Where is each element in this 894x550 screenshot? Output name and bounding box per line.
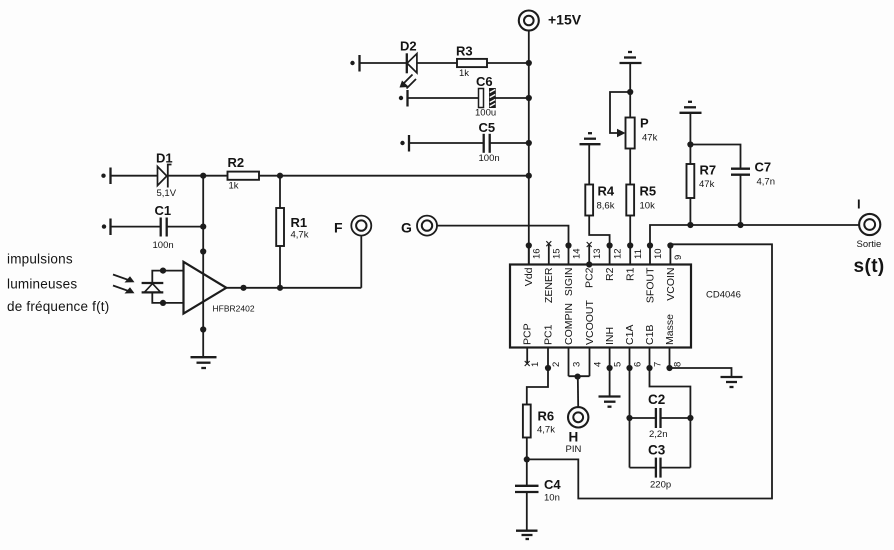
pin 13 PC2 stub with x <box>586 242 603 268</box>
svg-text:C5: C5 <box>479 120 496 135</box>
svg-text:C6: C6 <box>476 74 493 89</box>
amp output wire <box>226 287 361 289</box>
wire ground to R7/C7 node <box>689 113 691 164</box>
ground above P (inverted) <box>620 52 642 63</box>
terminal F <box>334 216 371 236</box>
resistor R2 <box>228 155 260 192</box>
svg-text:PC1: PC1 <box>543 324 555 345</box>
svg-text:C7: C7 <box>755 160 772 175</box>
svg-text:7: 7 <box>652 362 663 367</box>
svg-text:14: 14 <box>572 248 583 259</box>
output line pin10 to Sortie <box>650 225 859 246</box>
svg-text:R3: R3 <box>456 44 473 59</box>
svg-text:lumineuses: lumineuses <box>7 277 77 292</box>
svg-text:C1: C1 <box>155 203 172 218</box>
wire C5 to rail <box>490 142 529 144</box>
IC U2 CD4046 body <box>510 265 741 348</box>
wire pins 3+4 junction to H <box>569 374 590 408</box>
wire C6 to rail <box>495 97 529 99</box>
wire ground to wiper node <box>629 63 631 118</box>
svg-text:s(t): s(t) <box>854 256 885 277</box>
wire C7 to output line <box>740 175 742 225</box>
capacitor C1 <box>153 203 174 251</box>
svg-text:C1B: C1B <box>644 325 656 345</box>
terminal G <box>401 216 437 236</box>
photodiode HFBR input <box>142 271 164 303</box>
wire stub to C6 <box>408 97 479 99</box>
resistor R5 <box>626 184 656 216</box>
svg-text:G: G <box>401 220 412 236</box>
caption impulsions <box>7 252 109 315</box>
svg-text:4,7k: 4,7k <box>291 230 309 241</box>
svg-text:SFOUT: SFOUT <box>645 267 657 303</box>
pin 12 R2 stub <box>607 242 624 264</box>
svg-text:Vdd: Vdd <box>523 267 535 286</box>
svg-text:R2: R2 <box>604 267 616 281</box>
svg-text:6: 6 <box>632 362 643 367</box>
svg-text:+15V: +15V <box>548 12 582 28</box>
svg-text:47k: 47k <box>642 133 658 144</box>
svg-text:4: 4 <box>592 362 603 367</box>
wire R5 to pin11 <box>629 216 631 246</box>
wire C4 to ground <box>526 492 528 530</box>
node rail pin16 <box>526 242 532 248</box>
wire ground to R4 <box>588 144 590 184</box>
connector stub row D1 <box>101 168 110 185</box>
svg-text:R2: R2 <box>228 155 245 170</box>
node photodiode bottom <box>160 300 166 306</box>
ground above R7 (inverted) <box>680 102 702 113</box>
potentiometer P wiper arm <box>610 92 630 137</box>
potentiometer P <box>626 116 658 149</box>
wire output up to F <box>360 236 362 287</box>
svg-text:8: 8 <box>672 362 683 367</box>
wire pin5 to ground <box>609 368 611 396</box>
wire pin9 loop <box>527 244 772 498</box>
wire supply through amp <box>202 176 204 330</box>
wire stub to D2 <box>360 62 407 64</box>
ground C4 <box>516 531 538 539</box>
svg-text:3: 3 <box>571 362 582 367</box>
node R7/C7 top <box>687 141 693 147</box>
wire R7 to output line <box>689 198 691 225</box>
wire stub to D1 <box>111 175 158 177</box>
node rail C5 <box>526 140 532 146</box>
resistor R4 <box>585 184 615 216</box>
svg-text:VCOOUT: VCOOUT <box>584 299 596 345</box>
svg-text:11: 11 <box>633 249 644 259</box>
connector stub row C1 <box>102 219 111 236</box>
svg-text:1k: 1k <box>459 68 469 79</box>
node rail R3 <box>526 60 532 66</box>
svg-text:220p: 220p <box>650 480 671 491</box>
svg-text:H: H <box>569 430 579 445</box>
pin 15 ZENER stub with x <box>546 241 562 264</box>
photodiode light arrows <box>113 275 135 294</box>
svg-text:9: 9 <box>673 255 684 260</box>
terminal I Sortie <box>854 197 885 278</box>
pin 4 VCOOUT stub <box>590 348 604 377</box>
node R2/R1 <box>277 173 283 179</box>
node rail C6 <box>526 95 532 101</box>
node P wiper <box>627 89 633 95</box>
capacitor C4 <box>515 477 561 504</box>
pin 9 VCOIN stub <box>667 242 684 264</box>
svg-text:R1: R1 <box>625 267 637 281</box>
node amp supply <box>200 248 206 254</box>
svg-text:5,1V: 5,1V <box>157 188 177 199</box>
svg-text:C4: C4 <box>544 477 561 492</box>
svg-text:VCOIN: VCOIN <box>665 268 677 301</box>
svg-text:4,7k: 4,7k <box>537 425 555 436</box>
node rail R2 row <box>526 173 532 179</box>
svg-text:10: 10 <box>653 248 664 259</box>
svg-text:Masse: Masse <box>664 314 676 345</box>
svg-text:COMPIN: COMPIN <box>563 303 575 345</box>
wire pin8 to ground <box>670 368 732 377</box>
connector stub row C5 <box>400 135 409 152</box>
svg-text:100u: 100u <box>475 108 496 119</box>
svg-text:100n: 100n <box>153 240 174 251</box>
svg-text:1: 1 <box>530 362 541 367</box>
svg-text:PC2: PC2 <box>584 267 596 288</box>
svg-text:F: F <box>334 220 343 236</box>
svg-text:Sortie: Sortie <box>857 239 882 250</box>
svg-text:5: 5 <box>612 362 623 367</box>
svg-text:15: 15 <box>552 248 563 259</box>
svg-text:C1A: C1A <box>624 325 636 345</box>
wire stub to C5 <box>410 142 484 144</box>
svg-text:1k: 1k <box>229 181 239 192</box>
wire node to ground <box>202 330 204 357</box>
svg-text:SIGIN: SIGIN <box>563 268 575 297</box>
svg-text:10k: 10k <box>640 201 656 212</box>
ground above R4 (inverted) <box>580 133 601 144</box>
svg-text:13: 13 <box>592 248 603 259</box>
pin 6 C1A stub <box>626 348 643 372</box>
+15V supply rail <box>528 31 530 265</box>
wire pin6 down left rail <box>629 368 631 468</box>
pin 5 INH stub <box>607 348 624 372</box>
LED D2 <box>400 39 417 89</box>
resistor R3 <box>456 44 487 80</box>
op-amp receiver U1 HFBR2402 <box>184 262 255 314</box>
wire D1 to R2 with node <box>168 175 228 177</box>
svg-text:R5: R5 <box>640 184 657 199</box>
pin 1 PCP stub with x <box>525 348 541 368</box>
svg-text:47k: 47k <box>699 179 715 190</box>
wire pin2 to R6 <box>527 368 548 405</box>
node output C7 <box>737 222 743 228</box>
svg-text:100n: 100n <box>479 153 500 164</box>
node C2 right <box>687 415 693 421</box>
zener diode D1 <box>156 151 177 200</box>
wire stub to C1 <box>111 226 160 228</box>
svg-text:de fréquence f(t): de fréquence f(t) <box>7 299 109 314</box>
wire pin7 down right rail <box>650 368 691 468</box>
svg-text:2,2n: 2,2n <box>649 429 668 440</box>
node R6/C4/loop <box>524 456 530 462</box>
terminal +15V <box>519 11 582 31</box>
resistor R6 <box>523 405 555 438</box>
node output R7 <box>687 222 693 228</box>
svg-text:8,6k: 8,6k <box>597 201 615 212</box>
wire G to pin14 <box>437 226 568 246</box>
node D1/C1/R2 <box>200 173 206 179</box>
node amp ground <box>200 326 206 332</box>
resistor R1 <box>276 208 309 246</box>
node photodiode top <box>160 268 166 274</box>
svg-text:12: 12 <box>613 248 624 259</box>
svg-text:C2: C2 <box>648 392 665 407</box>
svg-text:CD4046: CD4046 <box>706 290 741 301</box>
svg-text:C3: C3 <box>648 443 666 458</box>
capacitor C3 <box>630 443 691 491</box>
node C2 left <box>626 415 632 421</box>
capacitor C2 <box>630 392 691 440</box>
resistor R7 <box>687 163 717 199</box>
ground pin5 <box>599 397 621 407</box>
node C1 on vertical <box>200 224 206 230</box>
pin 10 SFOUT stub <box>647 242 664 264</box>
svg-text:I: I <box>857 197 861 212</box>
wire R4 to pin12 <box>589 216 609 246</box>
svg-text:D1: D1 <box>156 151 173 166</box>
wire R1 top <box>279 176 281 208</box>
svg-text:HFBR2402: HFBR2402 <box>213 304 255 314</box>
wire R3 to rail <box>487 62 529 64</box>
svg-text:PIN: PIN <box>566 444 582 455</box>
terminal H <box>566 407 589 455</box>
connector stub row D2 <box>350 55 359 72</box>
polarized capacitor C6 <box>475 74 496 119</box>
pin 14 SIGIN stub <box>565 242 582 264</box>
wire P to R5 <box>629 149 631 185</box>
svg-text:R4: R4 <box>598 184 615 199</box>
svg-text:INH: INH <box>604 327 616 345</box>
capacitor C7 <box>731 160 775 188</box>
wire R6 to C4 node <box>526 438 528 486</box>
pin 16 Vdd stub <box>529 246 543 265</box>
ground under amp <box>191 357 217 368</box>
svg-text:4,7n: 4,7n <box>757 177 776 188</box>
capacitor C5 <box>479 120 500 164</box>
pin 11 R1 stub <box>627 242 644 264</box>
svg-text:10n: 10n <box>544 493 560 504</box>
ground pin8 <box>721 377 743 387</box>
svg-text:16: 16 <box>532 248 543 259</box>
wire photodiode to amp inputs <box>163 271 184 303</box>
svg-text:R7: R7 <box>700 163 717 178</box>
node output/R1 <box>277 285 283 291</box>
svg-text:P: P <box>640 116 649 131</box>
svg-text:ZENER: ZENER <box>543 267 555 303</box>
svg-text:R1: R1 <box>291 215 308 230</box>
svg-text:D2: D2 <box>400 39 417 54</box>
svg-text:2: 2 <box>551 362 562 367</box>
pin 3 COMPIN stub <box>569 348 583 377</box>
svg-text:R6: R6 <box>538 409 555 424</box>
wire R2 to +15V rail <box>259 175 529 177</box>
wire D2 to R3 <box>417 62 457 64</box>
svg-text:PCP: PCP <box>522 323 534 345</box>
pin 8 Masse stub <box>666 348 683 372</box>
pin 7 C1B stub <box>646 348 663 372</box>
wire node to C7 <box>690 145 740 169</box>
wire C1 to supply vertical <box>167 226 204 228</box>
pin 2 PC1 stub <box>545 348 562 372</box>
svg-text:impulsions: impulsions <box>7 252 73 267</box>
connector stub row C6 <box>399 90 408 107</box>
node on output <box>240 285 246 291</box>
wire R1 bottom <box>279 246 281 288</box>
